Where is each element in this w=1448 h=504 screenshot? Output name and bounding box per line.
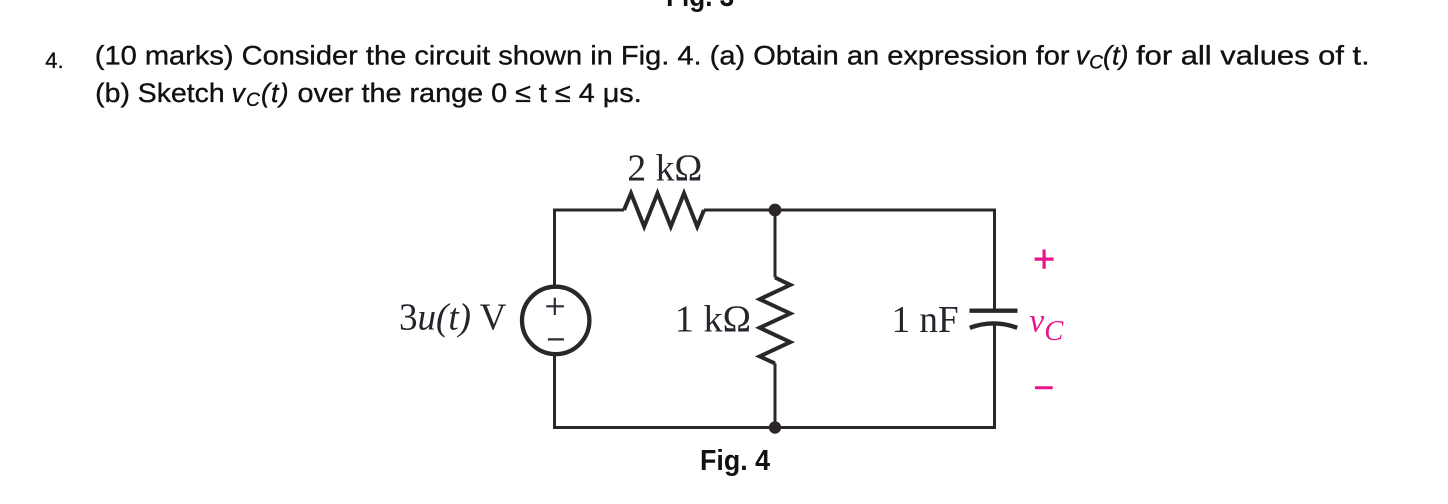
svg-text:2 kΩ: 2 kΩ (627, 148, 702, 190)
svg-text:for all values of t.: for all values of t. (1136, 41, 1370, 71)
resistor 1 kOhm vertical zigzag (760, 278, 791, 364)
wire left lower (source bottom lead) (553, 354, 556, 429)
svg-text:3u(t) V: 3u(t) V (399, 297, 507, 339)
wire top right segment (704, 209, 996, 212)
wire right lower (capacitor bottom lead) (993, 325, 996, 430)
svg-text:(10 marks) Consider the circui: (10 marks) Consider the circuit shown in… (95, 41, 1070, 71)
svg-text:Fig. 3: Fig. 3 (666, 0, 734, 13)
svg-text:over the range 0 ≤ t ≤ 4 μs.: over the range 0 ≤ t ≤ 4 μs. (298, 78, 642, 108)
wire left upper (source top lead) (553, 209, 556, 288)
svg-text:Fig. 4: Fig. 4 (700, 445, 770, 477)
+ polarity mark inside source (546, 298, 564, 315)
voltage source circle 3u(t) V (522, 287, 589, 354)
node dot bottom junction (769, 421, 781, 433)
resistor 2 kOhm horizontal zigzag (624, 193, 704, 226)
svg-text:vC(t): vC(t) (1076, 41, 1129, 74)
wire middle lower lead (774, 363, 777, 427)
svg-text:vC: vC (1029, 303, 1064, 348)
vC - sign (pink) (1035, 386, 1053, 389)
wire right upper (capacitor top lead) (993, 209, 996, 312)
svg-text:(b) Sketch: (b) Sketch (95, 78, 225, 108)
svg-text:4.: 4. (45, 48, 63, 73)
svg-text:vC(t): vC(t) (232, 78, 290, 111)
wire middle upper lead (774, 210, 777, 278)
svg-text:1 kΩ: 1 kΩ (675, 299, 751, 341)
- polarity mark inside source (548, 338, 564, 340)
svg-text:1 nF: 1 nF (892, 299, 959, 341)
vC + sign (pink) (1035, 250, 1054, 269)
wire bottom segment (553, 426, 996, 429)
capacitor 1 nF curved bottom plate (970, 323, 1017, 327)
node dot top junction (769, 204, 782, 217)
wire top left segment (553, 209, 624, 212)
capacitor 1 nF top plate (970, 309, 1018, 313)
